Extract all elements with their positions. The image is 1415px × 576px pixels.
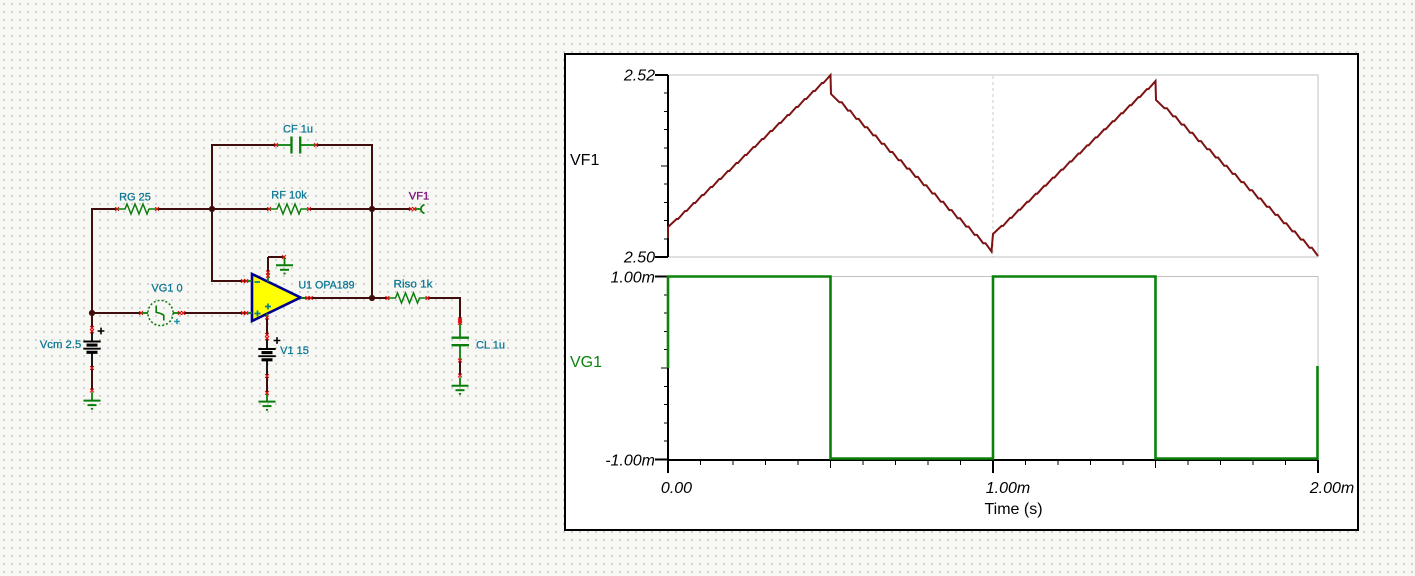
svg-text:RF 10k: RF 10k bbox=[271, 190, 307, 202]
svg-text:1.00m: 1.00m bbox=[611, 270, 655, 287]
svg-text:-1.00m: -1.00m bbox=[605, 453, 655, 470]
svg-text:VG1: VG1 bbox=[570, 354, 602, 371]
svg-text:CF 1u: CF 1u bbox=[283, 124, 313, 136]
svg-text:2.00m: 2.00m bbox=[1309, 480, 1354, 497]
svg-text:RG 25: RG 25 bbox=[119, 192, 151, 204]
svg-text:0.00: 0.00 bbox=[661, 480, 692, 497]
svg-text:2.50: 2.50 bbox=[623, 250, 655, 267]
svg-text:Riso 1k: Riso 1k bbox=[394, 279, 434, 291]
svg-text:VG1 0: VG1 0 bbox=[151, 283, 182, 295]
svg-text:CL 1u: CL 1u bbox=[476, 340, 505, 352]
svg-text:U1 OPA189: U1 OPA189 bbox=[299, 280, 355, 292]
svg-text:VF1: VF1 bbox=[570, 152, 599, 169]
svg-text:V1 15: V1 15 bbox=[280, 345, 309, 357]
svg-text:VF1: VF1 bbox=[409, 191, 430, 203]
svg-text:1.00m: 1.00m bbox=[986, 480, 1030, 497]
svg-text:2.52: 2.52 bbox=[623, 68, 655, 85]
svg-text:Time (s): Time (s) bbox=[984, 501, 1042, 518]
svg-text:Vcm 2.5: Vcm 2.5 bbox=[40, 339, 82, 351]
